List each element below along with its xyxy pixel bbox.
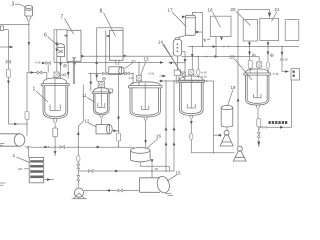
pipe y62.5	[54, 62, 163, 64]
svg-text:4↑16: 4↑16	[201, 71, 207, 75]
leader label 19	[228, 90, 234, 107]
bowtie left of reactor 3 valve	[125, 72, 130, 75]
bowtie valve y190.5	[118, 189, 123, 192]
tank 7 loop pipe	[54, 30, 67, 63]
pipe y56.5 right segment	[182, 56, 260, 58]
vapor line to vessel 17	[179, 35, 187, 37]
mother liquor recovery pipe	[259, 80, 292, 127]
reactor 4 vessel	[178, 76, 205, 116]
arrow right after pump 10	[125, 72, 128, 75]
pump bottom-left circle	[74, 188, 83, 197]
column right tube to x185 pipe	[182, 52, 185, 79]
pipes into reactor 4 left	[176, 75, 179, 84]
reactor 5 center valve X	[258, 57, 260, 62]
bowtie valve at reactor1 top feed	[46, 62, 51, 65]
bowtie valve y72.5	[37, 71, 42, 74]
leader label 2	[17, 157, 30, 163]
reactor 2 vessel	[92, 88, 110, 115]
reactor 1 drain pipe	[54, 137, 56, 156]
svg-text:16: 16	[156, 134, 162, 139]
reactor 1 bottom funnel	[53, 119, 57, 123]
reactor 5 vessel	[244, 69, 271, 105]
bowtie valve y73.5	[103, 72, 108, 75]
arrow stub tank 8 left	[106, 35, 109, 38]
riser pipe x78.3	[78, 85, 83, 189]
svg-text:11: 11	[82, 93, 87, 98]
leader label 10	[125, 63, 133, 69]
tank 8 outlet arrow	[123, 55, 127, 57]
column bottom pipe	[176, 56, 178, 70]
svg-text:6: 6	[44, 33, 47, 39]
pipe x192.3 to reactor 4 valve	[191, 47, 193, 70]
leader label 13	[141, 61, 147, 75]
reactor 4 drain	[190, 118, 192, 152]
tank 8	[110, 30, 124, 60]
leader label 1	[36, 91, 48, 102]
leader label 18	[213, 12, 221, 28]
valve V-left bowtie	[6, 60, 11, 63]
drum 2 feed joins top	[26, 134, 28, 135]
valve V-left rect	[6, 69, 10, 77]
bowtie valve y147	[60, 146, 65, 149]
reactor 3 drain pipe to drum	[145, 120, 147, 148]
svg-text:4↑16: 4↑16	[273, 72, 279, 76]
arrow into vessel 17	[182, 15, 185, 18]
svg-text:21: 21	[275, 7, 281, 12]
reactor 4 feed valve X	[189, 70, 194, 75]
pipe cone19 to riser	[214, 134, 222, 136]
svg-text:14: 14	[158, 40, 164, 45]
bowtie valve y171	[88, 170, 93, 173]
small box under column	[174, 70, 180, 75]
pipe y72.5 into reactor 1	[27, 73, 47, 80]
bowtie valves on riser	[77, 164, 80, 169]
svg-text:19: 19	[231, 85, 237, 90]
arrow up riser tank 8	[95, 61, 98, 64]
column top tube	[176, 38, 180, 40]
leader label 8	[104, 13, 116, 37]
pipe y124 from left header to drum feed	[8, 123, 27, 125]
svg-text:26: 26	[285, 58, 289, 62]
leader label 14 to column	[163, 44, 177, 65]
feed arrow mid	[160, 75, 166, 77]
leader label 20	[236, 12, 251, 26]
inlet box top-left	[0, 26, 3, 31]
box right edge	[285, 20, 299, 41]
main pipe y56.2 tanks discharge	[85, 55, 173, 57]
svg-text:4↑16: 4↑16	[129, 77, 135, 80]
pipe x118.5 down	[118, 74, 120, 148]
arrow stub tank 7 left	[64, 34, 67, 37]
pump 12 horizontal cylinder	[96, 125, 109, 134]
vessel 3 cylinder	[25, 6, 33, 9]
tank 8 left pipe	[105, 30, 107, 73]
leader label 23	[235, 59, 253, 80]
arrow down into box 21	[269, 10, 271, 13]
reactor 2 bottom funnel	[100, 115, 104, 125]
reactor 5 drain chain	[257, 108, 259, 119]
svg-text:17: 17	[168, 8, 174, 13]
leader label 7	[65, 19, 74, 35]
leader label 11	[87, 98, 95, 103]
arrow down left header	[7, 81, 10, 84]
riser x176	[173, 81, 175, 171]
pipe y62.5 junction to reactor1 right nozzle	[67, 63, 69, 79]
tank 7	[67, 30, 81, 61]
funnel under vessel 3	[26, 16, 31, 21]
svg-text:3: 3	[12, 2, 15, 8]
svg-text:1: 1	[33, 87, 36, 93]
svg-text:4↑16: 4↑16	[35, 61, 41, 65]
tiny text bottom-left	[0, 183, 6, 185]
svg-text:18: 18	[208, 8, 214, 13]
feed arrow y47 into left header	[0, 46, 13, 48]
leader label 3	[15, 4, 25, 7]
arrow to waste box	[282, 71, 289, 73]
svg-text:12: 12	[85, 119, 91, 124]
pump 15 outlet marks	[166, 194, 174, 196]
branch down to drum	[26, 73, 28, 135]
reactor 1 outlet valve	[54, 123, 56, 128]
feed chain under box 20a	[249, 41, 251, 60]
pipe y62.8 right segment with left arrow	[169, 62, 185, 64]
svg-text:23: 23	[230, 55, 236, 60]
pipe y81 header	[159, 80, 214, 82]
long pipe x238 from top	[237, 10, 239, 147]
feed chain under box 21	[267, 41, 269, 62]
pipe y147	[27, 146, 134, 147]
riser x213.5	[213, 81, 215, 153]
vessel 6 small dome tank	[57, 44, 65, 57]
tank 7 outlet arrow right	[81, 55, 85, 57]
leader label 21	[272, 12, 278, 22]
reactor 4 bottom funnel	[190, 115, 193, 118]
pipe y190.5 pump discharge	[84, 190, 140, 192]
pipe drum to heater	[25, 146, 29, 158]
drum 16 horizontal cylinder	[131, 148, 151, 154]
sight glass oval on riser	[77, 155, 80, 161]
leader label 6	[48, 37, 58, 46]
vessel 17 loop pipe	[192, 12, 202, 46]
box 20a	[243, 20, 257, 42]
reactor 3 feed valve X	[138, 63, 140, 76]
box 18	[210, 16, 231, 36]
vessel 6 outlet	[60, 57, 62, 63]
reactor 5 stirrer	[253, 69, 261, 98]
cone under cylinder 19	[224, 130, 229, 135]
reactor 1 right feed pipe	[60, 63, 62, 79]
tank 8 loop pipe riser	[97, 28, 123, 74]
arrow down vessel 3 pipe	[28, 42, 31, 45]
tag recovery text	[269, 121, 288, 124]
svg-text:13: 13	[144, 57, 150, 62]
column 16 dotted vessel	[173, 39, 181, 56]
pump 15 ellipse	[140, 178, 161, 193]
reactor 3 vessel	[128, 82, 162, 117]
reactor 3 stirrer	[142, 83, 149, 110]
svg-text:9: 9	[204, 39, 206, 43]
leader label 15	[167, 175, 177, 181]
small circle fitting	[64, 64, 67, 67]
drain pipe to cone	[191, 152, 234, 154]
bowtie near reactor4 left nozzle	[181, 72, 186, 75]
pump 10 horizontal cylinder	[109, 67, 122, 75]
valve on x118.5	[117, 133, 121, 141]
leader label 12	[89, 123, 97, 127]
reactor 1 center valve X	[54, 72, 59, 77]
pipe vessel 3 down	[28, 21, 30, 73]
cylinder 19 outlet	[226, 128, 228, 131]
cylinder 19	[221, 106, 233, 110]
pump 12 outlet	[112, 130, 118, 132]
pipe from inlet box to left header	[4, 30, 9, 124]
vessel 17 side outlet arrow	[195, 31, 202, 33]
svg-text:8: 8	[100, 9, 103, 15]
sight glass on drain	[190, 133, 193, 139]
short pipe reactor1 right dome	[72, 58, 76, 84]
top pipe y9.5	[238, 9, 270, 11]
riser x165.5	[165, 81, 167, 171]
feed arrow into reactor1 line	[43, 62, 46, 64]
reactor 2 feed valve X	[97, 74, 102, 82]
reactor 3 bottom funnel	[144, 117, 148, 120]
svg-text:(4%: (4%	[18, 167, 23, 171]
drum 2 horizontal cylinder	[0, 134, 20, 146]
pipe y169.5	[78, 170, 174, 172]
tank 7 bottom stub	[74, 61, 76, 65]
svg-text:7: 7	[61, 15, 64, 21]
box 21	[260, 18, 279, 40]
reactor 5 bottom funnel	[256, 105, 260, 108]
branch x282 from header	[281, 47, 283, 72]
reactor 4 stirrer	[187, 76, 195, 108]
pipe y46.5 header	[188, 46, 299, 48]
leader label 16	[147, 139, 159, 149]
tank 8 bottom nozzle	[115, 60, 119, 65]
heater outlet	[44, 179, 54, 181]
leader label 17	[172, 12, 187, 27]
svg-text:20: 20	[231, 7, 237, 12]
heater with bands	[29, 158, 44, 183]
reactor 1 vessel	[41, 78, 69, 119]
reactor 2 stirrer	[98, 88, 105, 107]
leader label 14 long to reactor 4	[164, 44, 186, 81]
sight glass oval right of valve	[197, 57, 199, 70]
feed pipe top-left y24.5	[0, 24, 29, 26]
svg-text:4↑16: 4↑16	[149, 72, 155, 76]
valve on drum feed	[25, 112, 29, 120]
cone discharge right	[237, 146, 242, 151]
fittings above reactor 2	[95, 75, 98, 78]
reactor 1 stirrer	[50, 79, 60, 111]
waste box right edge	[291, 69, 300, 80]
pipe y73.5	[89, 74, 134, 85]
vessel 17 cylinder	[185, 15, 195, 35]
pipe from tank7 loop top down to reactor1 center valve	[56, 30, 58, 72]
